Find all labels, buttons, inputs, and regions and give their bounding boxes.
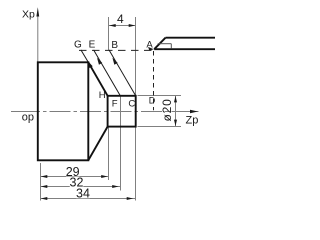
- svg-text:34: 34: [76, 187, 90, 201]
- svg-text:ø20: ø20: [160, 98, 174, 121]
- svg-text:Zp: Zp: [186, 114, 199, 126]
- svg-text:H: H: [99, 90, 106, 101]
- svg-text:D: D: [149, 95, 156, 105]
- svg-text:G: G: [74, 40, 82, 51]
- svg-text:op: op: [22, 112, 34, 124]
- svg-text:F: F: [112, 98, 118, 109]
- svg-text:C: C: [128, 98, 135, 109]
- svg-text:A: A: [146, 39, 153, 50]
- svg-text:Xp: Xp: [22, 9, 35, 21]
- svg-text:4: 4: [117, 12, 124, 26]
- svg-text:E: E: [89, 39, 96, 50]
- svg-text:B: B: [111, 40, 118, 51]
